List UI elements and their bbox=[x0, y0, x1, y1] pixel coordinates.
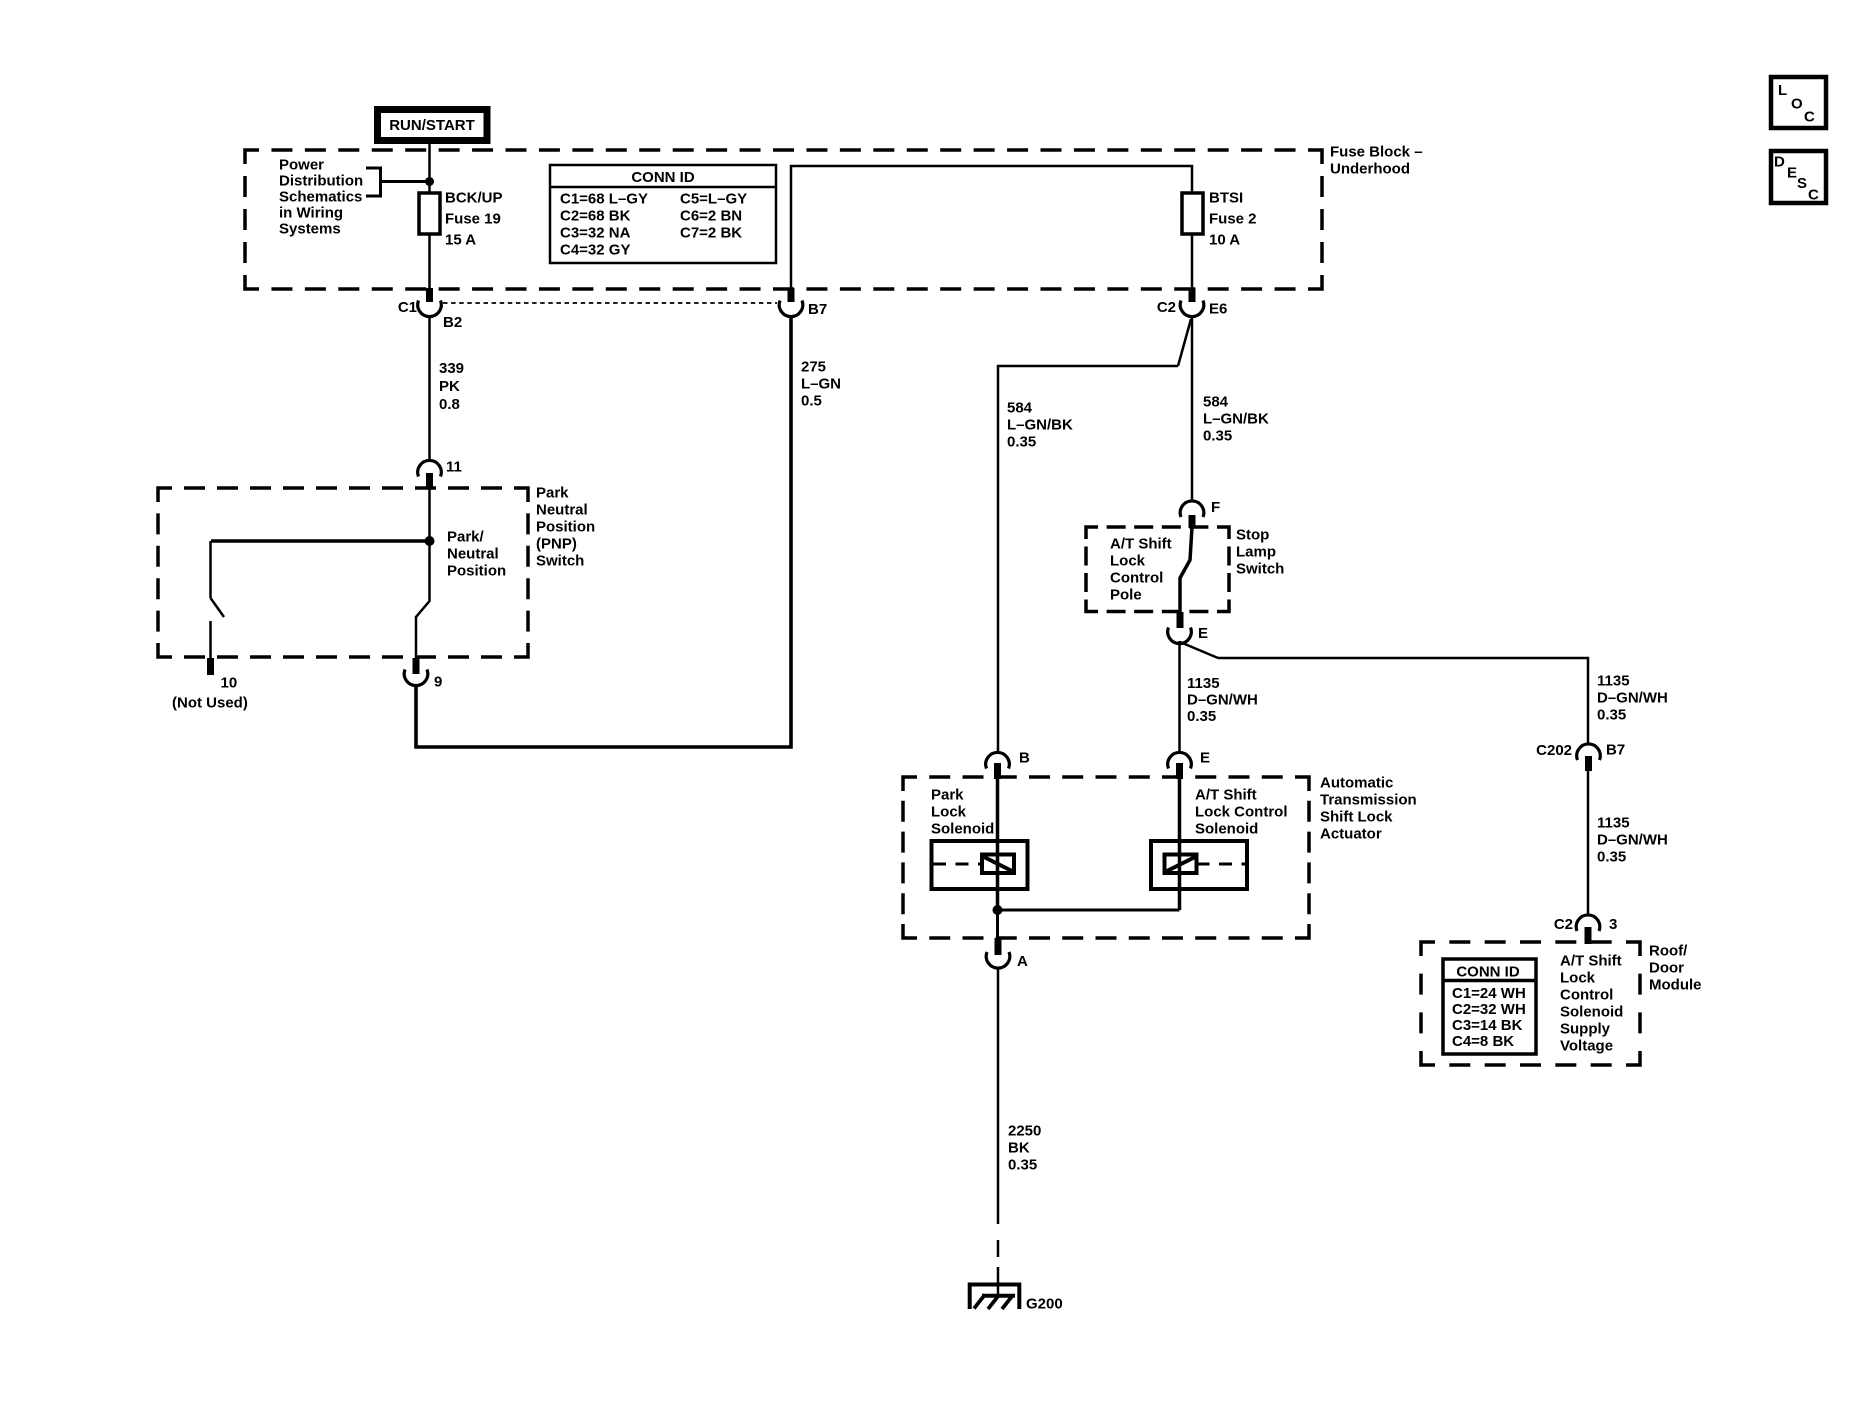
bracket from note to wire bbox=[366, 167, 430, 198]
svg-text:C2=68 BK: C2=68 BK bbox=[560, 208, 631, 225]
svg-text:0.35: 0.35 bbox=[1597, 707, 1626, 724]
svg-text:B: B bbox=[1019, 750, 1030, 767]
automatic transmission shift lock actuator dashed box bbox=[903, 777, 1309, 938]
svg-text:A/T Shift: A/T Shift bbox=[1560, 953, 1622, 970]
svg-text:Power: Power bbox=[279, 157, 324, 174]
svg-text:B7: B7 bbox=[808, 301, 827, 318]
svg-text:Lock: Lock bbox=[1560, 970, 1596, 987]
svg-text:E: E bbox=[1787, 165, 1797, 182]
svg-text:275: 275 bbox=[801, 359, 826, 376]
A/T shift lock control pole dashed box bbox=[1086, 527, 1229, 612]
svg-text:Roof/: Roof/ bbox=[1649, 943, 1688, 960]
svg-text:Underhood: Underhood bbox=[1330, 161, 1410, 178]
svg-text:3: 3 bbox=[1609, 916, 1617, 933]
connector F stop lamp switch bbox=[1180, 499, 1220, 528]
svg-text:A/T Shift: A/T Shift bbox=[1110, 536, 1172, 553]
connector E stop lamp switch bbox=[1168, 612, 1208, 644]
roof/door module label bbox=[1649, 943, 1702, 994]
connector ID table (roof/door) bbox=[1443, 959, 1536, 1054]
svg-text:C1=24 WH: C1=24 WH bbox=[1452, 985, 1526, 1002]
svg-text:D–GN/WH: D–GN/WH bbox=[1187, 692, 1258, 709]
svg-text:in Wiring: in Wiring bbox=[279, 205, 343, 222]
svg-text:A: A bbox=[1017, 953, 1028, 970]
svg-text:A/T Shift: A/T Shift bbox=[1195, 787, 1257, 804]
svg-text:C1=68 L–GY: C1=68 L–GY bbox=[560, 191, 648, 208]
fuse block - underhood dashed box bbox=[245, 150, 1322, 289]
DESC box bbox=[1771, 151, 1826, 204]
connector ID table (fuse block) bbox=[550, 165, 776, 263]
A/T shift lock control pole label bbox=[1110, 536, 1172, 604]
svg-text:Lock: Lock bbox=[1110, 553, 1146, 570]
svg-text:B2: B2 bbox=[443, 314, 462, 331]
svg-text:L–GN: L–GN bbox=[801, 376, 841, 393]
wire RUN/START to fuse BCK/UP bbox=[428, 141, 431, 193]
svg-text:0.35: 0.35 bbox=[1007, 434, 1036, 451]
svg-text:B7: B7 bbox=[1606, 742, 1625, 759]
svg-text:0.5: 0.5 bbox=[801, 393, 822, 410]
svg-text:Systems: Systems bbox=[279, 221, 341, 238]
svg-text:CONN ID: CONN ID bbox=[1456, 964, 1520, 981]
svg-text:C3=14 BK: C3=14 BK bbox=[1452, 1017, 1523, 1034]
svg-text:1135: 1135 bbox=[1187, 675, 1220, 692]
svg-text:Position: Position bbox=[447, 563, 506, 580]
svg-text:E: E bbox=[1200, 750, 1210, 767]
svg-text:C1: C1 bbox=[398, 299, 417, 316]
svg-text:C7=2 BK: C7=2 BK bbox=[680, 225, 742, 242]
svg-text:Neutral: Neutral bbox=[447, 546, 499, 563]
svg-text:C2: C2 bbox=[1157, 299, 1176, 316]
svg-text:Actuator: Actuator bbox=[1320, 826, 1382, 843]
svg-text:Lock Control: Lock Control bbox=[1195, 804, 1288, 821]
svg-text:L–GN/BK: L–GN/BK bbox=[1203, 411, 1269, 428]
svg-text:C3=32 NA: C3=32 NA bbox=[560, 225, 631, 242]
svg-text:10 A: 10 A bbox=[1209, 232, 1240, 249]
connector C2 terminal E6 bbox=[1157, 288, 1228, 318]
svg-text:C5=L–GY: C5=L–GY bbox=[680, 191, 747, 208]
fuse 19 BCK/UP bbox=[419, 190, 503, 249]
svg-text:9: 9 bbox=[434, 674, 442, 691]
svg-text:BCK/UP: BCK/UP bbox=[445, 190, 503, 207]
svg-text:RUN/START: RUN/START bbox=[389, 117, 475, 134]
svg-text:15 A: 15 A bbox=[445, 232, 476, 249]
svg-text:Switch: Switch bbox=[1236, 561, 1284, 578]
svg-text:1135: 1135 bbox=[1597, 815, 1630, 832]
svg-text:Park/: Park/ bbox=[447, 529, 485, 546]
svg-text:C202: C202 bbox=[1536, 742, 1572, 759]
svg-text:BTSI: BTSI bbox=[1209, 190, 1243, 207]
svg-text:Control: Control bbox=[1110, 570, 1163, 587]
svg-text:Voltage: Voltage bbox=[1560, 1038, 1613, 1055]
wire 1135 D-GN/WH to roof/door module bbox=[1180, 642, 1668, 743]
terminal 10 stub bbox=[207, 658, 214, 675]
junction dot PNP bbox=[425, 536, 435, 546]
svg-text:Lamp: Lamp bbox=[1236, 544, 1276, 561]
wire PNP common bbox=[211, 488, 430, 541]
wire 339 PK 0.8 bbox=[430, 317, 465, 460]
svg-text:G200: G200 bbox=[1026, 1296, 1063, 1313]
PNP switch dashed box bbox=[158, 488, 528, 657]
svg-text:0.35: 0.35 bbox=[1597, 849, 1626, 866]
svg-text:D–GN/WH: D–GN/WH bbox=[1597, 832, 1668, 849]
svg-text:339: 339 bbox=[439, 360, 464, 377]
wire 2250 BK 0.35 bbox=[998, 968, 1041, 1295]
svg-text:Switch: Switch bbox=[536, 553, 584, 570]
wire 275 L-GN 0.5 bbox=[416, 317, 841, 747]
svg-text:C2=32 WH: C2=32 WH bbox=[1452, 1001, 1526, 1018]
svg-text:E: E bbox=[1198, 625, 1208, 642]
svg-text:Position: Position bbox=[536, 519, 595, 536]
stop lamp switch blade bbox=[1180, 527, 1192, 613]
svg-text:Door: Door bbox=[1649, 960, 1684, 977]
svg-text:Fuse 19: Fuse 19 bbox=[445, 211, 501, 228]
svg-text:(PNP): (PNP) bbox=[536, 536, 577, 553]
svg-text:Park: Park bbox=[536, 485, 569, 502]
svg-text:C: C bbox=[1808, 187, 1819, 204]
fuse 2 BTSI bbox=[1182, 190, 1257, 249]
wire 584 L-GN/BK to stop lamp switch bbox=[1192, 317, 1269, 500]
svg-text:Module: Module bbox=[1649, 977, 1702, 994]
connector E shift lock solenoid bbox=[1168, 750, 1210, 780]
wire 584 L-GN/BK branch to park lock solenoid bbox=[998, 319, 1191, 752]
svg-text:0.35: 0.35 bbox=[1203, 428, 1232, 445]
svg-text:(Not Used): (Not Used) bbox=[172, 695, 248, 712]
svg-text:C4=8 BK: C4=8 BK bbox=[1452, 1033, 1514, 1050]
svg-text:Shift Lock: Shift Lock bbox=[1320, 809, 1393, 826]
svg-text:Control: Control bbox=[1560, 987, 1613, 1004]
svg-text:Supply: Supply bbox=[1560, 1021, 1611, 1038]
connector C202 terminal B7 bbox=[1536, 742, 1625, 772]
svg-text:L–GN/BK: L–GN/BK bbox=[1007, 417, 1073, 434]
svg-text:BK: BK bbox=[1008, 1140, 1030, 1157]
svg-text:C4=32 GY: C4=32 GY bbox=[560, 242, 630, 259]
svg-text:Fuse 2: Fuse 2 bbox=[1209, 211, 1257, 228]
ground G200 bbox=[970, 1285, 1063, 1313]
svg-text:Fuse Block –: Fuse Block – bbox=[1330, 144, 1423, 161]
svg-text:11: 11 bbox=[446, 459, 462, 476]
A/T shift lock control solenoid bbox=[1151, 778, 1288, 910]
svg-text:PK: PK bbox=[439, 378, 460, 395]
solenoid common wire bbox=[998, 910, 1180, 938]
svg-text:Schematics: Schematics bbox=[279, 189, 362, 206]
svg-text:O: O bbox=[1791, 96, 1803, 113]
svg-text:Transmission: Transmission bbox=[1320, 792, 1417, 809]
switch branch to terminal 10 bbox=[211, 541, 225, 659]
svg-text:C: C bbox=[1804, 109, 1815, 126]
connector C2 terminal 3 bbox=[1554, 915, 1618, 944]
wire BTSI fuse to connector C2 bbox=[1191, 234, 1194, 289]
connector B7 (fuse block) bbox=[779, 288, 827, 318]
PNP switch label bbox=[536, 485, 595, 570]
park lock solenoid bbox=[931, 778, 1028, 910]
Park/Neutral Position label bbox=[447, 529, 506, 580]
LOC box bbox=[1771, 77, 1826, 128]
A/T shift lock control solenoid supply voltage label bbox=[1560, 953, 1623, 1055]
svg-text:D: D bbox=[1774, 154, 1785, 171]
power distribution note bbox=[279, 157, 363, 238]
wire fuse 19 to connector C1 bbox=[428, 234, 431, 289]
actuator label bbox=[1320, 775, 1417, 843]
svg-text:Distribution: Distribution bbox=[279, 173, 363, 190]
stop lamp switch label bbox=[1236, 527, 1284, 578]
svg-text:CONN ID: CONN ID bbox=[631, 169, 695, 186]
connector boundary dotted line bbox=[443, 302, 777, 304]
svg-text:10: 10 bbox=[221, 675, 238, 692]
svg-text:584: 584 bbox=[1007, 400, 1033, 417]
fuse block label bbox=[1330, 144, 1423, 178]
svg-text:1135: 1135 bbox=[1597, 673, 1630, 690]
switch blade to terminal 9 bbox=[416, 541, 430, 659]
svg-text:0.35: 0.35 bbox=[1187, 708, 1216, 725]
terminal 11 connector bbox=[418, 459, 462, 490]
svg-text:C2: C2 bbox=[1554, 916, 1573, 933]
svg-text:L: L bbox=[1778, 82, 1787, 99]
svg-text:0.8: 0.8 bbox=[439, 396, 460, 413]
wire B7 riser to BTSI fuse bbox=[791, 166, 1192, 289]
wire 1135 D-GN/WH to actuator bbox=[1180, 641, 1258, 752]
svg-text:S: S bbox=[1797, 175, 1807, 192]
wire 1135 D-GN/WH to C2 bbox=[1588, 771, 1668, 914]
junction dot solenoid common bbox=[993, 905, 1003, 915]
svg-text:0.35: 0.35 bbox=[1008, 1157, 1037, 1174]
svg-text:D–GN/WH: D–GN/WH bbox=[1597, 690, 1668, 707]
label 10 (Not Used) bbox=[172, 675, 248, 712]
svg-text:Automatic: Automatic bbox=[1320, 775, 1393, 792]
connector B park lock solenoid bbox=[986, 750, 1030, 780]
power feed box RUN/START bbox=[378, 110, 488, 141]
roof/door module dashed box bbox=[1421, 942, 1640, 1065]
svg-text:Solenoid: Solenoid bbox=[931, 821, 994, 838]
connector A bbox=[986, 938, 1028, 970]
svg-text:2250: 2250 bbox=[1008, 1123, 1041, 1140]
terminal 9 connector bbox=[404, 658, 442, 691]
svg-text:Pole: Pole bbox=[1110, 587, 1142, 604]
svg-text:Stop: Stop bbox=[1236, 527, 1269, 544]
svg-text:Park: Park bbox=[931, 787, 964, 804]
svg-text:Solenoid: Solenoid bbox=[1195, 821, 1258, 838]
junction dot at fuse 19 feed bbox=[425, 177, 434, 186]
svg-text:Solenoid: Solenoid bbox=[1560, 1004, 1623, 1021]
svg-text:E6: E6 bbox=[1209, 301, 1227, 318]
svg-text:Neutral: Neutral bbox=[536, 502, 588, 519]
svg-text:Lock: Lock bbox=[931, 804, 967, 821]
svg-text:F: F bbox=[1211, 499, 1220, 516]
svg-text:584: 584 bbox=[1203, 394, 1229, 411]
connector C1 terminal B2 bbox=[398, 288, 462, 331]
svg-text:C6=2 BN: C6=2 BN bbox=[680, 208, 742, 225]
